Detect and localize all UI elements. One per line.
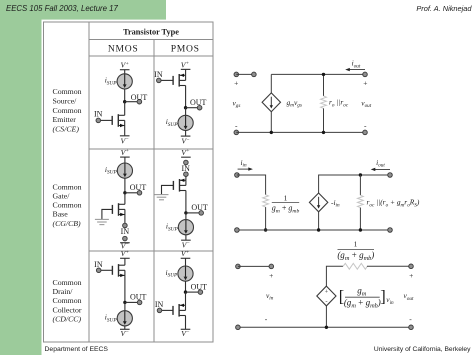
ground [155,195,169,200]
OUT terminal [137,99,142,104]
resistor roc||(ro+gm ro RS) [358,195,364,207]
svg-text:+: + [363,79,367,88]
OUT terminal [137,300,142,305]
ground [95,219,109,224]
input node dot [252,72,257,77]
wire dep source to ground rail [318,212,320,230]
V- rail [120,135,130,137]
dependent source -iin [309,193,327,212]
green sidebar [0,0,42,355]
svg-text:+: + [234,78,238,87]
drain wire to V- rail [185,316,187,330]
wire top rail to dep source [319,175,390,193]
input node dot [269,264,274,269]
wire rail to source [185,69,187,75]
IN rail terminal [123,236,128,241]
input stub wire [236,73,254,75]
svg-text:+: + [269,271,273,280]
transistor M5 NMOS [112,264,125,277]
wire to OUT terminal [125,101,140,103]
wire resistor to ground rail [323,108,325,132]
source wire to IN [124,215,126,224]
gain fraction bar [345,296,380,298]
svg-text:(CG/CB): (CG/CB) [53,219,82,228]
svg-text:Department of EECS: Department of EECS [45,346,109,353]
svg-text:OUT: OUT [191,203,208,212]
svg-text:OUT: OUT [191,282,208,291]
wire to OUT terminal [186,291,201,293]
svg-text:Common: Common [53,201,82,210]
ground rail left terminal [235,228,240,233]
junction bottom of source [270,131,273,134]
resistor ro||roc [321,96,327,108]
wire rail to source [270,74,272,93]
wire rail to drain [124,258,126,265]
svg-text:Prof. A. Niknejad: Prof. A. Niknejad [416,4,472,13]
current source iSUP [117,74,132,89]
transistor M6 PMOS [173,304,186,317]
svg-text:OUT: OUT [131,93,148,102]
green top banner [0,0,166,20]
wire source to OUT node [124,89,126,102]
gate wire to ground [102,209,113,219]
wire OUT node to drain [124,102,126,116]
svg-text:EECS 105 Fall 2003, Lecture 17: EECS 105 Fall 2003, Lecture 17 [6,4,118,13]
wire to current source [124,302,126,311]
output terminal - [363,130,368,135]
current source iSUP [178,115,193,130]
junction dep source bottom [317,228,320,231]
wire source to ground rail [270,112,272,133]
fraction bar above [338,249,375,251]
svg-text:-: - [325,299,327,306]
wire top rail to resistor [323,74,325,96]
svg-text:Common: Common [53,87,82,96]
ground rail left terminal [236,325,241,330]
node OUT junction [123,100,126,103]
svg-text:Common: Common [53,182,82,191]
svg-text:+: + [325,289,329,296]
output terminal top [409,264,414,269]
wire to V- rail [124,326,126,330]
row label: Common Drain / Common Collector [53,278,82,324]
V- rail [120,328,130,330]
IN terminal [96,118,101,123]
input stub wire [238,265,271,267]
output terminal + [363,72,368,77]
junction output resistor top [359,173,362,176]
table grid [44,22,214,342]
svg-text:Common: Common [53,278,82,287]
junction input branch [264,228,267,231]
svg-text:Source/: Source/ [53,97,78,106]
node OUT junction [184,106,187,109]
output terminal bottom [388,228,393,233]
svg-text:University of California, Berk: University of California, Berkeley [374,346,471,353]
input terminal [236,264,241,269]
wire resistor to output terminal [367,265,411,267]
wire output resistor to ground [359,208,361,230]
svg-text:IN: IN [155,300,164,309]
resistor 1/(gm+gmb) horizontal [343,263,367,269]
wire to V- rail [185,235,187,241]
wire to OUT terminal [125,192,140,194]
svg-text:Gate/: Gate/ [53,192,71,201]
row label: Common Source / Common Emitter [53,87,82,133]
OUT terminal [197,105,202,110]
transistor M4 PMOS [173,179,186,192]
svg-text:IN: IN [94,260,103,269]
svg-text:PMOS: PMOS [171,43,200,54]
wire rail to current source [124,70,126,75]
wire node to source [185,292,187,305]
input terminal [235,173,240,178]
wire to V- rail [185,130,187,136]
iin arrow [238,168,250,170]
svg-text:Common: Common [53,106,82,115]
ground rail [236,131,365,133]
IN terminal lower [184,172,189,177]
transistor M1 NMOS [112,114,125,127]
V- rail [120,242,130,244]
ground rail [237,229,390,231]
svg-text:NMOS: NMOS [108,43,139,54]
V- rail [181,135,191,137]
IN terminal [96,268,101,273]
V+ rail [120,257,130,259]
node OUT junction [184,211,187,214]
svg-text:Common: Common [53,296,82,305]
current source iSUP [178,220,193,235]
wire to OUT terminal [125,301,140,303]
OUT terminal [199,211,204,216]
junction output resistor bottom [359,228,362,231]
wire to OUT terminal [186,107,200,109]
svg-text:IN: IN [154,70,163,79]
source wire to OUT node [124,275,126,302]
input wire to corner [237,175,266,195]
wire resistor to ground rail [265,207,267,230]
svg-text:IN: IN [94,110,103,119]
row label: Common Gate / Common Base [53,182,82,227]
svg-text:Collector: Collector [53,305,82,314]
junction resistor top [322,73,325,76]
V+ rail [120,156,130,158]
V- rail [181,239,191,241]
svg-text:OUT: OUT [190,98,207,107]
V+ rail [120,69,130,71]
wire rail to current source [185,258,187,266]
gate wire [160,309,174,311]
wire node to current source [185,108,187,116]
node OUT junction [123,301,126,304]
resistor 1/(gm+gmb) [263,195,269,207]
input terminal + [234,72,239,77]
wire rail to current source [124,157,126,163]
gate wire to ground [162,185,174,194]
IN terminal [157,308,162,313]
wire to OUT terminal [186,212,201,214]
top rail [271,73,365,75]
svg-text:IN: IN [121,227,130,236]
iout arrow [348,69,365,71]
iout arrow [374,168,391,170]
source wire to V- [124,126,126,136]
transistor M2 PMOS [173,74,186,87]
transistor M3 NMOS [112,203,125,216]
gate wire [99,269,113,271]
junction resistor bottom [322,131,325,134]
svg-text:Transistor Type: Transistor Type [123,27,179,36]
output terminal bottom [409,325,414,330]
current source iSUP [178,266,193,281]
wire source up to top rail [326,266,343,286]
svg-text:OUT: OUT [130,183,147,192]
wire to output resistor [359,175,361,195]
wire to source [185,176,187,180]
V+ rail [181,156,191,158]
output terminal top [388,173,393,178]
svg-text:Drain/: Drain/ [53,287,74,296]
svg-text:(CS/CE): (CS/CE) [53,124,80,133]
wire to OUT node [185,281,187,292]
IN terminal top [184,160,189,165]
wire node to drain [124,193,126,205]
svg-text:Emitter: Emitter [53,115,77,124]
junction source bottom [325,326,328,329]
IN terminal [157,78,162,83]
V+ rail [181,257,191,259]
svg-text:Base: Base [53,210,69,219]
svg-text:]: ] [380,286,386,305]
drain wire to OUT node [185,191,187,213]
dependent voltage source [317,286,336,306]
IN terminal [123,223,128,228]
svg-text:1: 1 [284,193,288,202]
current source iSUP [117,311,132,326]
drain wire to OUT node [185,86,187,108]
input terminal - [234,130,239,135]
node OUT junction [184,290,187,293]
fraction bar [272,201,299,203]
ground rail [238,326,411,328]
svg-text:(CD/CC): (CD/CC) [53,315,82,324]
svg-text:1: 1 [354,240,358,249]
OUT terminal [137,191,142,196]
node OUT junction [123,191,126,194]
svg-text:OUT: OUT [130,293,147,302]
wire source down to ground rail [325,306,327,327]
wire to current source [185,213,187,220]
svg-text:+: + [409,271,413,280]
OUT terminal [198,290,203,295]
wire to OUT node [124,178,126,193]
gate wire [159,79,173,81]
V+ rail [181,68,191,70]
gate wire [98,119,112,121]
current source iSUP [117,163,132,178]
V- rail [181,328,191,330]
dependent source gm*vgs [262,93,280,112]
